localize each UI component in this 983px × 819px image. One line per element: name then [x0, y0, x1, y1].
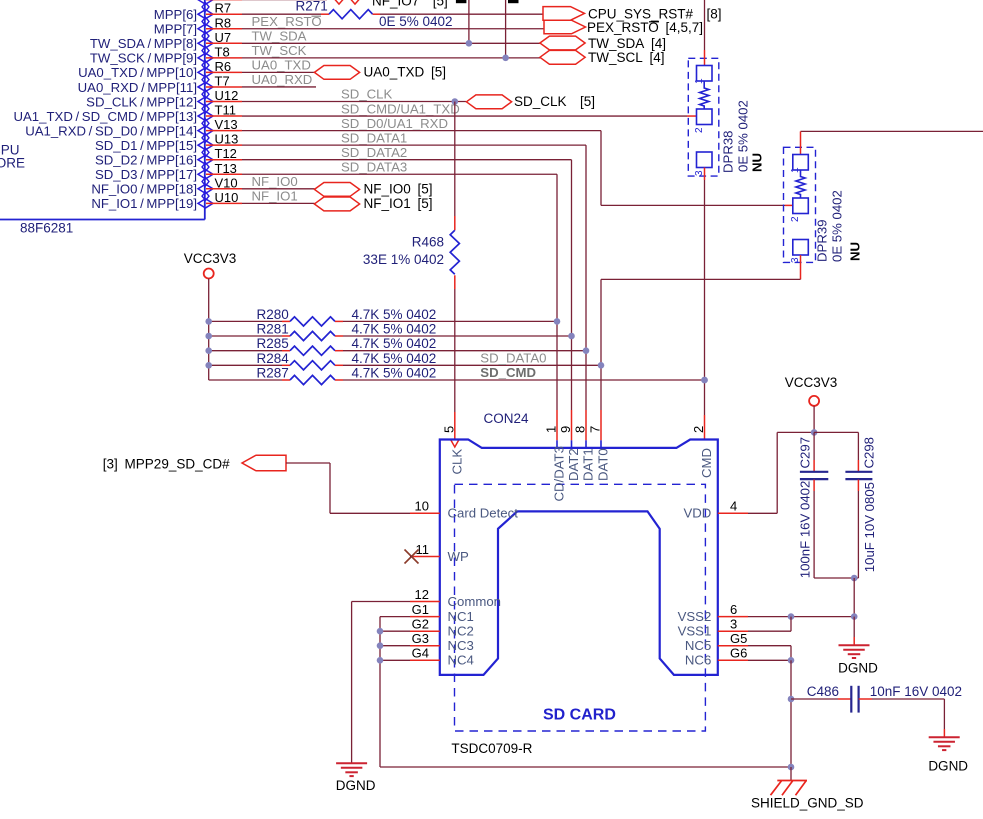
- capacitor C297 bottom lead red: [813, 480, 815, 491]
- DPR39 pin1 lead: [800, 131, 802, 154]
- resistor R284 right stub: [335, 364, 343, 366]
- svg-text:5: 5: [441, 426, 456, 433]
- junction VSS1/VSS2: [788, 613, 795, 620]
- svg-text:VCC3V3: VCC3V3: [184, 251, 237, 266]
- svg-text:SD_DATA1: SD_DATA1: [341, 130, 407, 145]
- wire G1: [380, 616, 410, 618]
- CON24 top pin lead x=557: [556, 410, 558, 440]
- svg-text:SD_CLK / MPP[12]: SD_CLK / MPP[12]: [86, 94, 197, 109]
- connector UA0_TXD hexagon: [314, 66, 359, 80]
- wire SD_D0 to DPR39 pin2: [601, 204, 785, 206]
- svg-text:G4: G4: [412, 646, 429, 661]
- wire VSS2: [748, 616, 854, 618]
- pin stub MPP[8]: [206, 42, 242, 44]
- wire VDD up: [776, 432, 778, 513]
- CON24 CLK input arrowhead: [451, 440, 459, 447]
- svg-text:CON24: CON24: [484, 411, 530, 426]
- junction TW_SDA: [466, 40, 473, 47]
- svg-text:R284: R284: [257, 351, 290, 366]
- svg-text:TW_SCK: TW_SCK: [252, 43, 307, 58]
- wire MPP[13] SD_CMD to DPR38: [242, 115, 687, 117]
- svg-text:TSDC0709-R: TSDC0709-R: [451, 741, 532, 756]
- wire R280 to column: [343, 320, 557, 322]
- junction SD_CLK / R468: [452, 98, 459, 105]
- DPR39 dashed outline: [784, 147, 816, 262]
- wire VSS1 horiz: [748, 630, 791, 632]
- svg-text:TW_SCL [4]: TW_SCL [4]: [588, 50, 665, 65]
- CON24 pin7 stub: [600, 440, 602, 448]
- pin stub MPP[17]: [206, 173, 242, 175]
- capacitor C297 bottom lead: [813, 491, 815, 578]
- resistor R468: [450, 230, 459, 274]
- ground DGND (C486): [929, 736, 960, 738]
- resistor R271: [329, 10, 373, 19]
- svg-text:SD_D3 / MPP[17]: SD_D3 / MPP[17]: [95, 167, 197, 182]
- capacitor C298 top lead red: [857, 460, 859, 471]
- wire Common down to ground: [351, 602, 353, 764]
- svg-text:CMD: CMD: [699, 448, 714, 478]
- junction R285: [583, 347, 590, 354]
- wire TW_SDA vertical to top: [468, 0, 470, 43]
- junction R287: [701, 377, 708, 384]
- connector NF_IO0 hexagon: [314, 183, 359, 197]
- CON24 pin 3 (VSS1) lead: [718, 630, 748, 632]
- svg-text:R281: R281: [257, 322, 289, 337]
- svg-text:NF_IO1: NF_IO1: [252, 189, 298, 204]
- svg-text:DGND: DGND: [838, 660, 878, 675]
- wire C486 to ground: [872, 698, 944, 700]
- svg-text:DGND: DGND: [928, 759, 968, 774]
- no-connect X at WP: [405, 550, 419, 564]
- wire DPR38 pin3 to CMD column: [704, 180, 706, 415]
- pin stub MPP[15]: [206, 144, 242, 146]
- DPR38 pin2 pad: [697, 109, 713, 125]
- svg-text:UA0_TXD [5]: UA0_TXD [5]: [364, 65, 447, 80]
- junction VCC rail R284: [205, 362, 212, 369]
- resistor R287 left stub: [282, 379, 290, 381]
- capacitor C298 plates: [845, 471, 872, 473]
- svg-text:33E 1% 0402: 33E 1% 0402: [363, 252, 444, 267]
- DPR39 pin3 pad: [793, 240, 809, 256]
- svg-text:4.7K 5% 0402: 4.7K 5% 0402: [352, 366, 437, 381]
- DPR38 pin2 stub: [687, 115, 696, 117]
- DPR39 pin2 stub: [785, 204, 793, 206]
- svg-text:R287: R287: [257, 366, 289, 381]
- svg-text:SD_CMD: SD_CMD: [480, 365, 536, 380]
- wire VCC3V3 rail down: [208, 279, 210, 381]
- wire NC6 horiz: [748, 659, 791, 661]
- pin stub MPP[16]: [206, 159, 242, 161]
- svg-text:CLK: CLK: [450, 449, 465, 475]
- pin stub MPP[13]: [206, 115, 242, 117]
- wire MPP[17] vertical to CON24: [556, 174, 558, 410]
- power symbol VCC3V3 (right): [809, 396, 819, 406]
- DPR39 pin1 pad: [793, 155, 809, 171]
- svg-text:SD CARD: SD CARD: [543, 707, 616, 724]
- wire MPP[16] vertical to CON24: [571, 160, 573, 410]
- DPR38 pin3 lead down: [704, 168, 706, 181]
- overline gray PEX_RSTO: [312, 15, 322, 17]
- svg-text:MPP[7]: MPP[7]: [154, 22, 197, 37]
- svg-text:NC2: NC2: [448, 624, 474, 639]
- wire MPP29 to pin10: [330, 512, 410, 514]
- svg-text:TW_SDA [4]: TW_SDA [4]: [588, 36, 666, 51]
- svg-text:100nF 16V 0402: 100nF 16V 0402: [798, 481, 813, 579]
- resistor R285: [290, 346, 335, 355]
- junction cap bottom/ground stem: [851, 575, 858, 582]
- svg-text:R280: R280: [257, 307, 289, 322]
- svg-text:SD_D1 / MPP[15]: SD_D1 / MPP[15]: [95, 138, 197, 153]
- DPR38 pin3 pad: [697, 152, 713, 168]
- junction VSS2/gnd stem: [851, 613, 858, 620]
- svg-text:NF_IO1 / MPP[19]: NF_IO1 / MPP[19]: [91, 196, 197, 211]
- wire VCC3V3 stem: [813, 406, 815, 433]
- chip 88F6281 bottom edge: [0, 219, 205, 221]
- wire MPP29 vertical: [329, 463, 331, 513]
- svg-text:1: 1: [694, 78, 705, 84]
- CON24 dashed SD CARD box: [455, 484, 706, 731]
- svg-text:UA1_TXD / SD_CMD / MPP[13]: UA1_TXD / SD_CMD / MPP[13]: [13, 109, 197, 124]
- pin stub MPP[12]: [206, 101, 242, 103]
- junction shield/bottom wire: [788, 764, 795, 771]
- CON24 pin5 CLK lead: [454, 412, 456, 440]
- wire MPP[18]: [242, 188, 315, 190]
- svg-text:3: 3: [694, 170, 705, 176]
- capacitor C486 left lead red: [838, 698, 851, 700]
- svg-text:NC5: NC5: [685, 638, 711, 653]
- svg-text:PEX_RSTO: PEX_RSTO: [252, 14, 322, 29]
- connector CPU_SYS_RST# arrow: [543, 7, 585, 21]
- svg-text:[3] MPP29_SD_CD#: [3] MPP29_SD_CD#: [103, 456, 230, 471]
- svg-text:VSS1: VSS1: [678, 624, 712, 639]
- CON24 pin 11 (WP) lead: [410, 556, 440, 558]
- svg-text:0E 5% 0402: 0E 5% 0402: [830, 190, 845, 262]
- CON24 pin G5 (NC5) lead: [718, 645, 748, 647]
- junction TW_SCL: [502, 55, 509, 62]
- svg-text:PEX_RSTO [4,5,7]: PEX_RSTO [4,5,7]: [587, 20, 703, 35]
- chassis ground SHIELD_GND_SD: [771, 781, 808, 796]
- svg-text:1: 1: [790, 167, 801, 173]
- svg-text:4: 4: [730, 499, 737, 514]
- ground DGND (caps): [839, 644, 870, 646]
- capacitor C298 bottom lead: [857, 491, 859, 578]
- CON24 top pin lead x=571.5: [571, 410, 573, 440]
- svg-text:UA0_TXD: UA0_TXD: [252, 58, 311, 73]
- svg-text:8: 8: [573, 426, 588, 433]
- svg-text:NC6: NC6: [685, 653, 711, 668]
- svg-text:R271: R271: [296, 0, 328, 14]
- wire VCC rail to R285: [209, 350, 282, 352]
- connector PEX_RSTO arrow: [544, 20, 586, 34]
- resistor R280: [290, 317, 335, 326]
- resistor R284: [290, 361, 335, 370]
- wire R271 to CPU_SYS_RST#: [380, 13, 543, 15]
- DPR39 pin3 lead down: [800, 255, 802, 279]
- R468 bottom lead: [454, 275, 456, 289]
- junction G2: [377, 628, 384, 635]
- wire R284 to column: [343, 364, 601, 366]
- svg-text:TW_SDA / MPP[8]: TW_SDA / MPP[8]: [90, 36, 197, 51]
- svg-text:G2: G2: [412, 617, 429, 632]
- wire MPP[5]: [242, 0, 327, 1]
- wire VDD to VCC junction: [777, 431, 814, 433]
- svg-text:DAT2: DAT2: [566, 448, 581, 481]
- capacitor C486 plates: [850, 686, 852, 713]
- DPR38 pin1 pad: [697, 66, 713, 82]
- wire TW_SCL vertical to top: [505, 0, 507, 58]
- svg-text:C298: C298: [861, 437, 876, 469]
- svg-text:R285: R285: [257, 336, 289, 351]
- svg-text:0E 5% 0402: 0E 5% 0402: [379, 14, 453, 29]
- overline PEX_RSTO: [649, 21, 659, 23]
- off-page stub square 1: [456, 0, 467, 3]
- svg-text:NU: NU: [750, 153, 765, 172]
- junction G4: [377, 657, 384, 664]
- wire Common: [352, 601, 410, 603]
- svg-text:4.7K 5% 0402: 4.7K 5% 0402: [352, 307, 437, 322]
- pin stub MPP[11]: [206, 86, 242, 88]
- svg-text:TW_SDA: TW_SDA: [252, 29, 307, 44]
- svg-text:WP: WP: [448, 549, 469, 564]
- resistor R287: [290, 375, 335, 384]
- wire MPP[8] to TW_SDA: [242, 42, 541, 44]
- capacitor C297 plates: [800, 471, 828, 473]
- wire MPP[9] to TW_SCL: [242, 57, 541, 59]
- resistor R285 right stub: [335, 350, 343, 352]
- wire R285 to column: [343, 350, 586, 352]
- resistor R271 right stub: [373, 13, 380, 15]
- CON24 top pin lead x=586: [585, 410, 587, 440]
- resistor R281: [290, 331, 335, 340]
- svg-text:10nF 16V 0402: 10nF 16V 0402: [870, 684, 962, 699]
- wire C486 ground down: [943, 699, 945, 729]
- svg-text:SD_D0/UA1_RXD: SD_D0/UA1_RXD: [341, 116, 448, 131]
- wire VCC3V3 rail corner: [209, 379, 282, 381]
- svg-text:SD_CLK [5]: SD_CLK [5]: [514, 94, 595, 109]
- wire SD_D0 vertical: [600, 131, 602, 206]
- resistor R280 right stub: [335, 320, 343, 322]
- connector TW_SDA hexagon: [540, 36, 585, 50]
- CON24 top pin stub x=586: [585, 440, 587, 448]
- wire shield stem: [790, 767, 792, 781]
- CON24 top pin stub x=571.5: [571, 440, 573, 448]
- svg-text:G5: G5: [730, 631, 747, 646]
- off-page stub square 2: [508, 0, 519, 3]
- svg-text:SD_CMD/UA1_TXD: SD_CMD/UA1_TXD: [341, 101, 460, 116]
- svg-text:NC3: NC3: [448, 638, 474, 653]
- wire R468 to CON24 CLK: [454, 289, 456, 412]
- wire VSS1 up: [790, 617, 792, 632]
- wire gnd stem to DGND: [853, 617, 855, 637]
- svg-text:7: 7: [588, 426, 603, 433]
- svg-text:4.7K 5% 0402: 4.7K 5% 0402: [352, 351, 437, 366]
- svg-text:Card Detect: Card Detect: [448, 506, 519, 521]
- svg-text:SHIELD_GND_SD: SHIELD_GND_SD: [751, 796, 864, 811]
- resistor R281 right stub: [335, 335, 343, 337]
- svg-text:88F6281: 88F6281: [20, 221, 73, 236]
- junction VCC rail R281: [205, 333, 212, 340]
- svg-text:DPR38: DPR38: [721, 130, 736, 173]
- wire DPR39 pin3 to SD_D0 column: [601, 278, 801, 280]
- CON24 pin G2 (NC2) lead: [410, 630, 440, 632]
- capacitor C298 top lead: [857, 432, 859, 460]
- wire MPP[11] stub: [242, 86, 316, 88]
- svg-text:DAT1: DAT1: [581, 448, 596, 481]
- svg-text:NF_IO7 [5]: NF_IO7 [5]: [372, 0, 448, 9]
- wire NC5 down: [790, 646, 792, 661]
- svg-text:UA0_TXD / MPP[10]: UA0_TXD / MPP[10]: [78, 65, 197, 80]
- wire VCC rail to R284: [209, 364, 282, 366]
- wire ground stem: [853, 578, 855, 617]
- wire gnd stem red: [853, 637, 855, 645]
- pin stub MPP[19]: [206, 202, 242, 204]
- svg-text:C486: C486: [807, 684, 839, 699]
- wire MPP[6] to R271: [242, 13, 321, 15]
- svg-text:SD_DATA3: SD_DATA3: [341, 159, 407, 174]
- CON24 pin7 lead: [600, 410, 602, 440]
- svg-text:DAT0: DAT0: [596, 448, 611, 481]
- resistor R284 left stub: [282, 364, 290, 366]
- wire C486 ground red: [943, 729, 945, 737]
- CON24 top pin stub x=557: [556, 440, 558, 448]
- CON24 pin G1 (NC1) lead: [410, 616, 440, 618]
- connector MPP29_SD_CD# arrow: [242, 455, 286, 471]
- svg-text:9: 9: [558, 426, 573, 433]
- wire NC5 horiz: [748, 645, 791, 647]
- svg-text:NF_IO0 / MPP[18]: NF_IO0 / MPP[18]: [91, 182, 197, 197]
- svg-text:12: 12: [415, 587, 429, 602]
- svg-text:NF_IO1 [5]: NF_IO1 [5]: [364, 196, 433, 211]
- svg-text:6: 6: [730, 602, 737, 617]
- wire G3: [380, 645, 410, 647]
- pin stub MPP[9]: [206, 57, 242, 59]
- svg-text:G6: G6: [730, 646, 747, 661]
- wire MPP[10]: [242, 71, 315, 73]
- wire VDD: [748, 512, 777, 514]
- wire MPP[19]: [242, 202, 315, 204]
- junction R284: [598, 362, 605, 369]
- svg-text:NF_IO0: NF_IO0: [252, 174, 298, 189]
- svg-text:1: 1: [544, 426, 559, 433]
- svg-text:G1: G1: [412, 602, 429, 617]
- svg-text:SD_D2 / MPP[16]: SD_D2 / MPP[16]: [95, 153, 197, 168]
- svg-text:UA1_RXD / SD_D0 / MPP[14]: UA1_RXD / SD_D0 / MPP[14]: [25, 123, 197, 138]
- wire R281 to column: [343, 335, 572, 337]
- svg-text:10uF 10V 0805: 10uF 10V 0805: [862, 482, 877, 572]
- svg-text:VDD: VDD: [683, 506, 711, 521]
- wire SD_D0 lower vertical: [600, 279, 602, 410]
- resistor R285 left stub: [282, 350, 290, 352]
- svg-text:NF_IO0 [5]: NF_IO0 [5]: [364, 181, 433, 196]
- wire WP stub: [410, 556, 412, 558]
- junction R281: [568, 333, 575, 340]
- CON24 pin G4 (NC4) lead: [410, 659, 440, 661]
- capacitor C298 bottom lead red: [857, 480, 859, 491]
- DPR38 pin1 lead: [704, 50, 706, 66]
- svg-text:R468: R468: [412, 235, 444, 250]
- chip MPP pin diamonds (analog pin symbols): [198, 0, 213, 4]
- CON24 pin 10 (Card Detect) lead: [410, 512, 440, 514]
- svg-text:2: 2: [694, 127, 705, 133]
- svg-text:SD_DATA2: SD_DATA2: [341, 145, 407, 160]
- resistor R280 left stub: [282, 320, 290, 322]
- svg-text:UA0_RXD / MPP[11]: UA0_RXD / MPP[11]: [78, 80, 197, 95]
- capacitor C297 top lead red: [813, 460, 815, 471]
- pin stub MPP[14]: [206, 130, 242, 132]
- junction G3: [377, 642, 384, 649]
- connector NF_IO1 hexagon: [314, 197, 359, 211]
- wire G2: [380, 630, 410, 632]
- svg-text:UA0_RXD: UA0_RXD: [252, 72, 313, 87]
- svg-text:4.7K 5% 0402: 4.7K 5% 0402: [352, 336, 437, 351]
- wire to C486: [791, 698, 838, 700]
- junction VCC rail R280: [205, 318, 212, 325]
- connector TW_SCL hexagon: [540, 50, 585, 64]
- wire shield net vertical: [790, 660, 792, 767]
- CON24 pin G3 (NC3) lead: [410, 645, 440, 647]
- svg-text:DGND: DGND: [336, 778, 376, 793]
- DPR38 dashed outline: [688, 58, 719, 176]
- wire cap top rail: [814, 431, 858, 433]
- wire cap bottom rail: [814, 577, 858, 579]
- wire MPP[15] horizontal: [242, 144, 586, 146]
- junction C486 tap: [788, 696, 795, 703]
- junction NC5/NC6: [788, 657, 795, 664]
- svg-text:C297: C297: [797, 437, 812, 469]
- svg-text:CORE: CORE: [0, 156, 25, 171]
- svg-text:NC1: NC1: [448, 609, 474, 624]
- wire to DPR39 pin1 (net to right edge): [801, 130, 983, 132]
- wire G4: [380, 659, 410, 661]
- pin stub MPP[7]: [206, 28, 242, 30]
- svg-text:10: 10: [415, 499, 429, 514]
- ground DGND (Common): [336, 762, 367, 764]
- pin stub MPP[6]: [206, 13, 242, 15]
- wire MPP[12] to SD_CLK: [242, 101, 466, 103]
- wire VCC rail to R281: [209, 335, 282, 337]
- CON24 pin2 lead: [704, 415, 706, 440]
- svg-text:4.7K 5% 0402: 4.7K 5% 0402: [352, 322, 437, 337]
- svg-text:VSS2: VSS2: [678, 609, 712, 624]
- power symbol VCC3V3 (left): [204, 269, 214, 279]
- resistor R271 left stub: [321, 13, 329, 15]
- wire R287 to column: [343, 379, 705, 381]
- CON24 pin 12 (Common) lead: [410, 601, 440, 603]
- wire MPP[14] SD_D0: [242, 130, 601, 132]
- svg-text:3: 3: [790, 257, 801, 263]
- junction R280: [554, 318, 561, 325]
- junction VCC rail R285: [205, 347, 212, 354]
- R468 top lead: [454, 216, 456, 230]
- CON24 pin G6 (NC6) lead: [718, 659, 748, 661]
- svg-text:G3: G3: [412, 631, 429, 646]
- capacitor C486 right lead red: [859, 698, 872, 700]
- wire MPP[16] horizontal: [242, 159, 572, 161]
- CON24 pin 6 (VSS2) lead: [718, 616, 748, 618]
- wire G-net bottom to shield: [380, 766, 791, 768]
- wire MPP29 horizontal: [286, 462, 330, 464]
- svg-text:0E 5% 0402: 0E 5% 0402: [736, 100, 751, 172]
- DPR38 resistor body: [700, 81, 709, 109]
- chip U? 88F6281 right edge: [204, 0, 206, 220]
- junction VCC3V3/C297: [811, 429, 818, 436]
- svg-text:TW_SCK / MPP[9]: TW_SCK / MPP[9]: [90, 51, 197, 66]
- resistor R281 left stub: [282, 335, 290, 337]
- svg-text:2: 2: [691, 426, 706, 433]
- wire VCC rail to R280: [209, 320, 282, 322]
- svg-text:MPP[6]: MPP[6]: [154, 7, 197, 22]
- wire MPP[15] vertical to CON24: [585, 145, 587, 410]
